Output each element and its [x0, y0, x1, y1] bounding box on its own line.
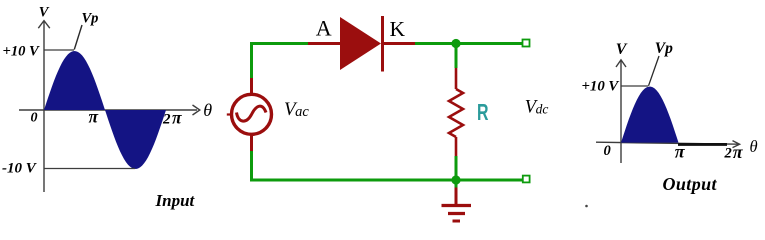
ground lead (red) — [455, 182, 458, 188]
node bottom junction — [451, 175, 460, 184]
resistor R zigzag — [449, 89, 463, 137]
svg-text:Input: Input — [155, 191, 196, 210]
svg-text:K: K — [390, 17, 406, 41]
output halfwave fill — [621, 87, 679, 143]
svg-text:θ: θ — [750, 137, 758, 156]
svg-text:Output: Output — [663, 174, 718, 194]
svg-text:Vp: Vp — [655, 40, 673, 57]
wire bottom left vertical (green) — [250, 151, 253, 182]
svg-text:+10 V: +10 V — [3, 43, 41, 59]
node top junction — [451, 39, 460, 48]
AC source side ticks — [227, 113, 231, 115]
wire resistor top green segment — [455, 44, 458, 69]
AC source V1 circle — [232, 94, 272, 134]
input sine waveform fill — [44, 51, 166, 169]
output +10V reference line — [621, 85, 648, 87]
svg-text:0: 0 — [604, 143, 611, 159]
svg-text:π: π — [89, 107, 99, 127]
diode D1 cathode bar — [381, 16, 384, 72]
svg-text:Vp: Vp — [82, 10, 99, 26]
AC source sine symbol — [237, 106, 267, 121]
wire source bottom lead (red) — [250, 135, 253, 152]
terminal bottom right square — [523, 176, 530, 183]
svg-text:+10 V: +10 V — [582, 78, 620, 94]
output graph V axis — [616, 60, 626, 163]
diode D1 triangle — [340, 17, 381, 70]
diode cathode lead (red) — [384, 42, 415, 45]
output graph theta axis — [596, 141, 740, 148]
diode anode lead (red) — [308, 42, 340, 45]
input Vp pointer line — [74, 25, 82, 50]
svg-text:0: 0 — [31, 110, 38, 125]
wire top left vertical (green) — [250, 42, 253, 78]
input graph V axis — [38, 21, 50, 192]
input graph theta axis — [19, 105, 200, 115]
output Vp pointer line — [649, 56, 660, 86]
svg-text:V: V — [39, 4, 50, 20]
svg-text:-10 V: -10 V — [2, 160, 38, 176]
svg-text:A: A — [316, 15, 332, 40]
ground symbol — [442, 206, 472, 222]
wire top horizontal green right segment — [415, 42, 526, 45]
resistor R bottom lead (red) — [455, 137, 458, 156]
input -10V reference line — [44, 168, 135, 170]
input +10V reference line — [44, 49, 74, 51]
svg-text:V: V — [616, 41, 628, 58]
svg-text:π: π — [675, 141, 686, 161]
svg-text:R: R — [477, 99, 489, 125]
svg-text:2π: 2π — [162, 108, 182, 128]
wire resistor bottom green segment — [455, 156, 458, 180]
svg-text:θ: θ — [203, 100, 212, 120]
stray dot — [585, 205, 588, 208]
wire source top lead (red) — [250, 78, 253, 94]
resistor R top lead (red) — [455, 68, 458, 89]
wire top horizontal green left segment — [250, 42, 308, 45]
output zero signal thick line — [678, 143, 727, 146]
wire bottom horizontal (green) — [250, 179, 526, 182]
svg-text:2π: 2π — [724, 142, 744, 162]
terminal top right square — [523, 40, 530, 47]
